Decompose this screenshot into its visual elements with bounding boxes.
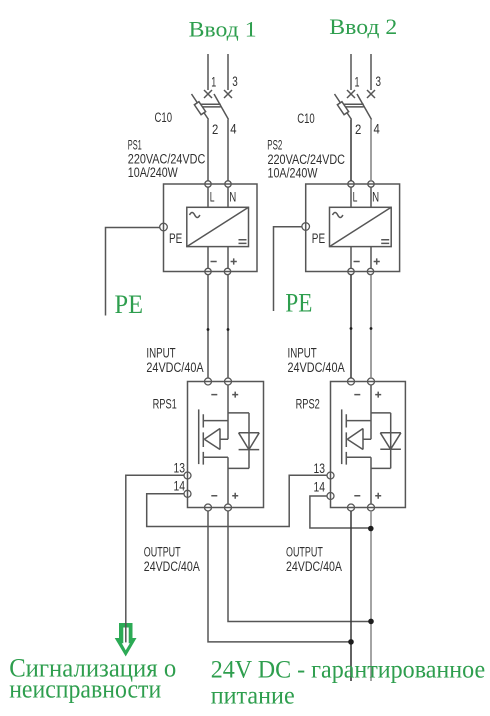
svg-text:2: 2 xyxy=(212,122,218,137)
svg-text:3: 3 xyxy=(376,74,382,89)
svg-text:1: 1 xyxy=(211,74,216,89)
svg-text:RPS1: RPS1 xyxy=(153,396,177,411)
svg-text:C10: C10 xyxy=(297,111,315,126)
svg-text:PS2: PS2 xyxy=(267,138,282,153)
svg-text:INPUT: INPUT xyxy=(288,346,317,361)
svg-text:4: 4 xyxy=(374,121,381,136)
svg-text:PE: PE xyxy=(169,231,182,246)
svg-text:N: N xyxy=(229,189,236,204)
svg-text:14: 14 xyxy=(314,479,326,494)
svg-text:OUTPUT: OUTPUT xyxy=(286,545,323,560)
svg-text:PE: PE xyxy=(312,231,325,246)
svg-text:24VDC/40A: 24VDC/40A xyxy=(288,360,345,375)
svg-text:1: 1 xyxy=(355,74,360,89)
svg-text:N: N xyxy=(372,189,379,204)
svg-text:14: 14 xyxy=(174,478,186,493)
svg-text:Ввод 2: Ввод 2 xyxy=(329,14,397,39)
svg-text:10A/240W: 10A/240W xyxy=(128,165,178,180)
svg-text:24VDC/40A: 24VDC/40A xyxy=(144,559,200,574)
svg-text:RPS2: RPS2 xyxy=(296,396,320,411)
svg-text:2: 2 xyxy=(355,122,361,137)
svg-text:3: 3 xyxy=(232,74,238,89)
svg-text:Ввод 1: Ввод 1 xyxy=(189,16,257,41)
svg-text:питание: питание xyxy=(211,682,295,710)
svg-text:PS1: PS1 xyxy=(128,138,142,153)
svg-text:13: 13 xyxy=(174,460,186,475)
svg-text:L: L xyxy=(353,189,358,204)
svg-text:24VDC/40A: 24VDC/40A xyxy=(286,559,342,574)
svg-text:13: 13 xyxy=(314,461,326,476)
svg-text:L: L xyxy=(210,189,215,204)
svg-text:OUTPUT: OUTPUT xyxy=(144,545,181,560)
svg-text:24VDC/40A: 24VDC/40A xyxy=(146,360,203,375)
svg-text:PE: PE xyxy=(285,288,312,318)
svg-text:PE: PE xyxy=(115,289,144,319)
svg-text:C10: C10 xyxy=(155,110,173,125)
svg-text:неисправности: неисправности xyxy=(9,673,161,703)
svg-text:10A/240W: 10A/240W xyxy=(268,166,318,181)
svg-text:24V DC - гарантированное: 24V DC - гарантированное xyxy=(211,655,486,683)
svg-text:4: 4 xyxy=(230,121,237,136)
svg-text:INPUT: INPUT xyxy=(146,346,175,361)
